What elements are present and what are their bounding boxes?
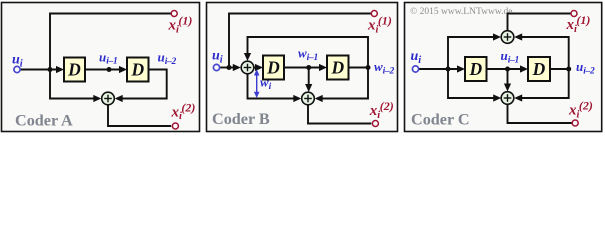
wire u_i-2 down to adder2 right (Coder C) <box>520 69 569 98</box>
wire D2 to u_i-2 node (Coder C) <box>550 68 569 70</box>
delay register D2 (Coder C) <box>528 57 550 81</box>
wire D1 to D2 (Coder A) <box>85 69 121 71</box>
wire adder2 output to x2 terminal (Coder C) <box>508 104 573 123</box>
node w_i-1 (Coder B) <box>306 65 311 70</box>
panel frame Coder B <box>207 3 398 132</box>
adder modulo-2 (Coder A) <box>102 92 115 105</box>
svg-text:D: D <box>532 59 546 79</box>
wire D1 to D2 (Coder B) <box>284 67 321 69</box>
svg-text:D: D <box>67 60 81 80</box>
svg-text:D: D <box>330 58 344 78</box>
arrowhead into adder2 top (Coder B) <box>305 84 312 92</box>
wire adder1 output to x1 terminal (Coder C) <box>508 14 571 31</box>
arrowhead into adder top (Coder B) <box>244 53 251 61</box>
node junction u_i tap (Coder C) <box>446 67 451 72</box>
wire u_i input to adder (Coder B) <box>220 67 235 69</box>
svg-text:Coder C: Coder C <box>411 111 470 129</box>
input terminal u_i (Coder A) <box>14 66 20 72</box>
arrowhead into adder left (Coder A) <box>93 95 101 102</box>
wire D1 to D2 (Coder C) <box>487 68 523 70</box>
wire w_i-2 down to adder2 right (Coder B) <box>321 68 369 99</box>
arrowhead into D2 (Coder A) <box>119 66 127 73</box>
delay register D2 (Coder B) <box>327 56 349 80</box>
arrowhead into adder1 right (Coder C) <box>514 33 522 40</box>
wire left branch down to adder (Coder A) <box>50 70 96 99</box>
output terminal x_i(1) (Coder B) <box>371 11 377 17</box>
adder modulo-2 input (Coder B) <box>241 61 254 74</box>
node u_i-1 (Coder C) <box>505 67 510 72</box>
node junction at u_i tap (Coder B) <box>227 65 232 70</box>
wire D2 output down to adder right input (Coder A) <box>121 70 167 99</box>
wire u_i input to D1 (Coder A) <box>20 69 58 71</box>
arrowhead into adder left (Coder B) <box>233 64 241 71</box>
svg-text:Coder A: Coder A <box>15 112 73 130</box>
wire tap up to x1 output (Coder B) <box>229 14 371 68</box>
svg-text:D: D <box>130 60 144 80</box>
wire tap up to x1 output (Coder A) <box>50 14 171 70</box>
wire adder output to x2 terminal (Coder A) <box>108 105 171 126</box>
input terminal u_i (Coder B) <box>213 64 219 70</box>
wire adder2 output to x2 terminal (Coder B) <box>308 105 371 124</box>
arrowhead into adder1 left (Coder C) <box>493 33 501 40</box>
node junction at u_i tap (Coder A) <box>48 67 53 72</box>
wire adder to D1 (Coder B) <box>254 67 257 69</box>
node u_i-1 (Coder A) <box>107 67 112 72</box>
arrowhead into adder2 right (Coder C) <box>514 94 522 101</box>
input terminal u_i (Coder C) <box>412 66 418 72</box>
wire u_i input to D1 (Coder C) <box>419 68 459 70</box>
annotation double arrow w_i (Coder B) <box>254 69 260 98</box>
arrowhead into D1 (Coder B) <box>255 64 263 71</box>
adder modulo-2 upper (Coder C) <box>501 31 514 44</box>
arrowhead into adder2 top (Coder C) <box>504 84 511 92</box>
output terminal x_i(1) (Coder C) <box>571 11 577 17</box>
svg-text:Coder B: Coder B <box>212 110 270 128</box>
node u_i-2 (Coder C) <box>566 67 571 72</box>
arrowhead into adder right (Coder A) <box>115 95 123 102</box>
delay register D1 (Coder B) <box>263 56 284 80</box>
panel frame Coder C <box>405 3 602 132</box>
output terminal x_i(1) (Coder A) <box>171 11 177 17</box>
output terminal x_i(2) (Coder B) <box>372 121 378 127</box>
arrowhead into D1 (Coder C) <box>457 65 465 72</box>
wire w_i branch down to adder2 left (Coder B) <box>248 74 296 99</box>
arrowhead into D2 (Coder B) <box>319 64 327 71</box>
wire w_i-1 down to adder2 (Coder B) <box>308 68 310 87</box>
output terminal x_i(2) (Coder C) <box>572 120 578 126</box>
adder modulo-2 lower (Coder C) <box>501 92 514 105</box>
panel frame Coder A <box>2 3 200 132</box>
adder modulo-2 output (Coder B) <box>302 92 315 105</box>
arrowhead into D1 (Coder A) <box>56 66 64 73</box>
wire D2 to w_i-2 node (Coder B) <box>349 67 369 69</box>
arrowhead into adder2 left (Coder C) <box>493 94 501 101</box>
delay register D2 (Coder A) <box>127 58 149 82</box>
delay register D1 (Coder C) <box>465 57 487 81</box>
feedback wire from w_i-2 node to adder top (Coder B) <box>248 37 369 68</box>
node w_i-2 (Coder B) <box>366 65 371 70</box>
wire u_i-2 up to adder1 right (Coder C) <box>520 37 569 69</box>
output terminal x_i(2) (Coder A) <box>172 123 178 129</box>
arrowhead into adder2 left (Coder B) <box>293 95 301 102</box>
delay register D1 (Coder A) <box>64 58 85 82</box>
wire left branch up to adder1 (Coder C) <box>448 37 495 69</box>
svg-text:© 2015 www.LNTwww.de: © 2015 www.LNTwww.de <box>410 6 512 17</box>
wire left branch down to adder2 (Coder C) <box>448 69 496 98</box>
arrowhead into adder2 right (Coder B) <box>315 95 323 102</box>
arrowhead into D2 (Coder C) <box>520 65 528 72</box>
wire u_i-1 down to adder2 top (Coder C) <box>507 69 509 86</box>
svg-text:D: D <box>468 59 482 79</box>
